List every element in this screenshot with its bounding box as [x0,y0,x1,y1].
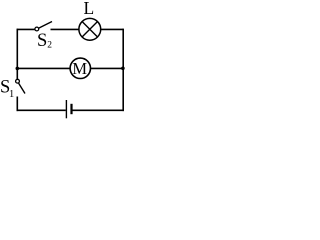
svg-text:L: L [84,0,95,18]
svg-text:S: S [37,31,47,51]
svg-text:1: 1 [9,89,14,100]
svg-text:2: 2 [47,40,52,50]
svg-text:M: M [72,59,87,78]
